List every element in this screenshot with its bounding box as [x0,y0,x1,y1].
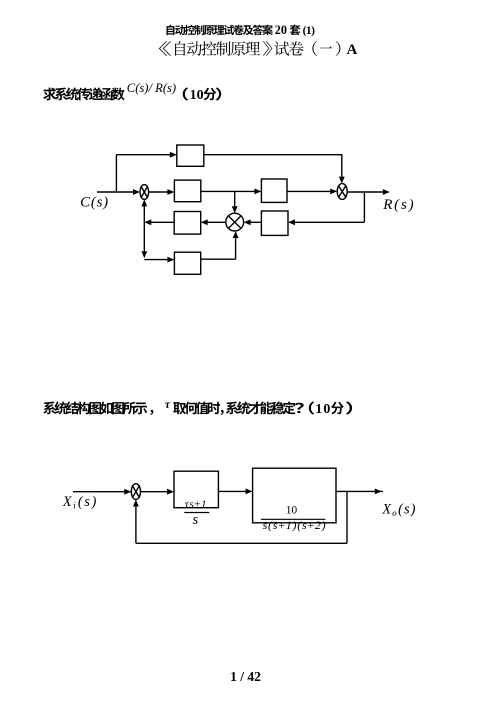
svg-text:Xi(s): Xi(s) [62,494,98,511]
wire: bottom row into B5 [144,259,169,261]
svg-text:10: 10 [286,505,298,517]
wire: B3 to S3 [249,221,262,223]
footer page number [230,669,261,684]
wire: top block right then down into S2 [204,154,342,179]
svg-text:τs+1: τs+1 [185,498,207,510]
wire: B5 right then up into S3 bottom [201,236,236,260]
label Xi(s) [62,494,98,511]
wire: G1 to G2 [218,490,247,492]
wire: output feedback down-left into B3 [293,192,364,222]
svg-text:10: 10 [190,88,204,103]
svg-text:s: s [193,512,199,528]
wire: top path into top block [116,154,171,156]
wire: feedback loop from output to S4 [136,491,347,543]
wire: S2 to output R(s) [347,191,383,193]
block G1 [174,471,218,508]
summing junction S1 [140,185,149,200]
svg-text:A: A [347,42,358,58]
block B5 [174,252,200,274]
wire: S1 to block B1 [149,191,169,193]
svg-text:(1): (1) [303,25,316,37]
svg-text:10: 10 [315,402,331,417]
summing junction S3 central [226,213,244,231]
block B3 [261,211,288,235]
svg-text:Xo(s): Xo(s) [381,502,416,519]
label R(s) [382,197,415,213]
svg-text:C(s): C(s) [80,195,109,211]
block G2 [253,468,336,523]
wire: S4 to block G1 [141,491,170,493]
block B2 [261,179,287,202]
block T (top) [177,145,204,166]
arrowheads diagram 1 [133,152,390,263]
svg-text:C(s)/ R(s): C(s)/ R(s) [127,81,176,95]
svg-text:1 / 42: 1 / 42 [230,669,261,684]
wire: B4 left to node [149,221,174,223]
G1 value label (τs+1)/s [184,498,209,527]
question 1 text [43,81,221,103]
wire: node up into S1 bottom [143,205,145,223]
G2 value label 10 / s(s+1)(s+2) [261,505,326,532]
label Xo(s) [381,502,416,519]
wire: node down to bottom row [143,222,145,253]
wire: C(s) input to summing junction S1 [97,191,134,193]
wire: Xi(s) input into summing junction S4 [73,491,127,493]
header line 2: exam title [159,41,358,58]
summing junction S4 [131,484,140,500]
svg-text:20: 20 [275,23,287,37]
label C(s) [80,195,109,211]
header line 1: document title [167,23,316,37]
svg-text:s(s+1)(s+2): s(s+1)(s+2) [263,518,327,532]
block B1 [174,180,200,202]
svg-text:R(s): R(s) [382,197,415,213]
wire: branch up from input [115,155,117,192]
svg-text:τ: τ [165,399,171,411]
block B4 [174,212,201,235]
wire: B2 to S2 [287,190,332,192]
wire: branch down into central junction S3 [234,191,236,208]
arrowheads diagram 2 [124,489,382,507]
summing junction S2 [337,184,347,200]
question 2 text [43,399,352,417]
wire: S3 to B4 [206,221,226,223]
wire: B1 to B2 [201,190,256,192]
wire: G2 to output Xo(s) [336,490,383,492]
